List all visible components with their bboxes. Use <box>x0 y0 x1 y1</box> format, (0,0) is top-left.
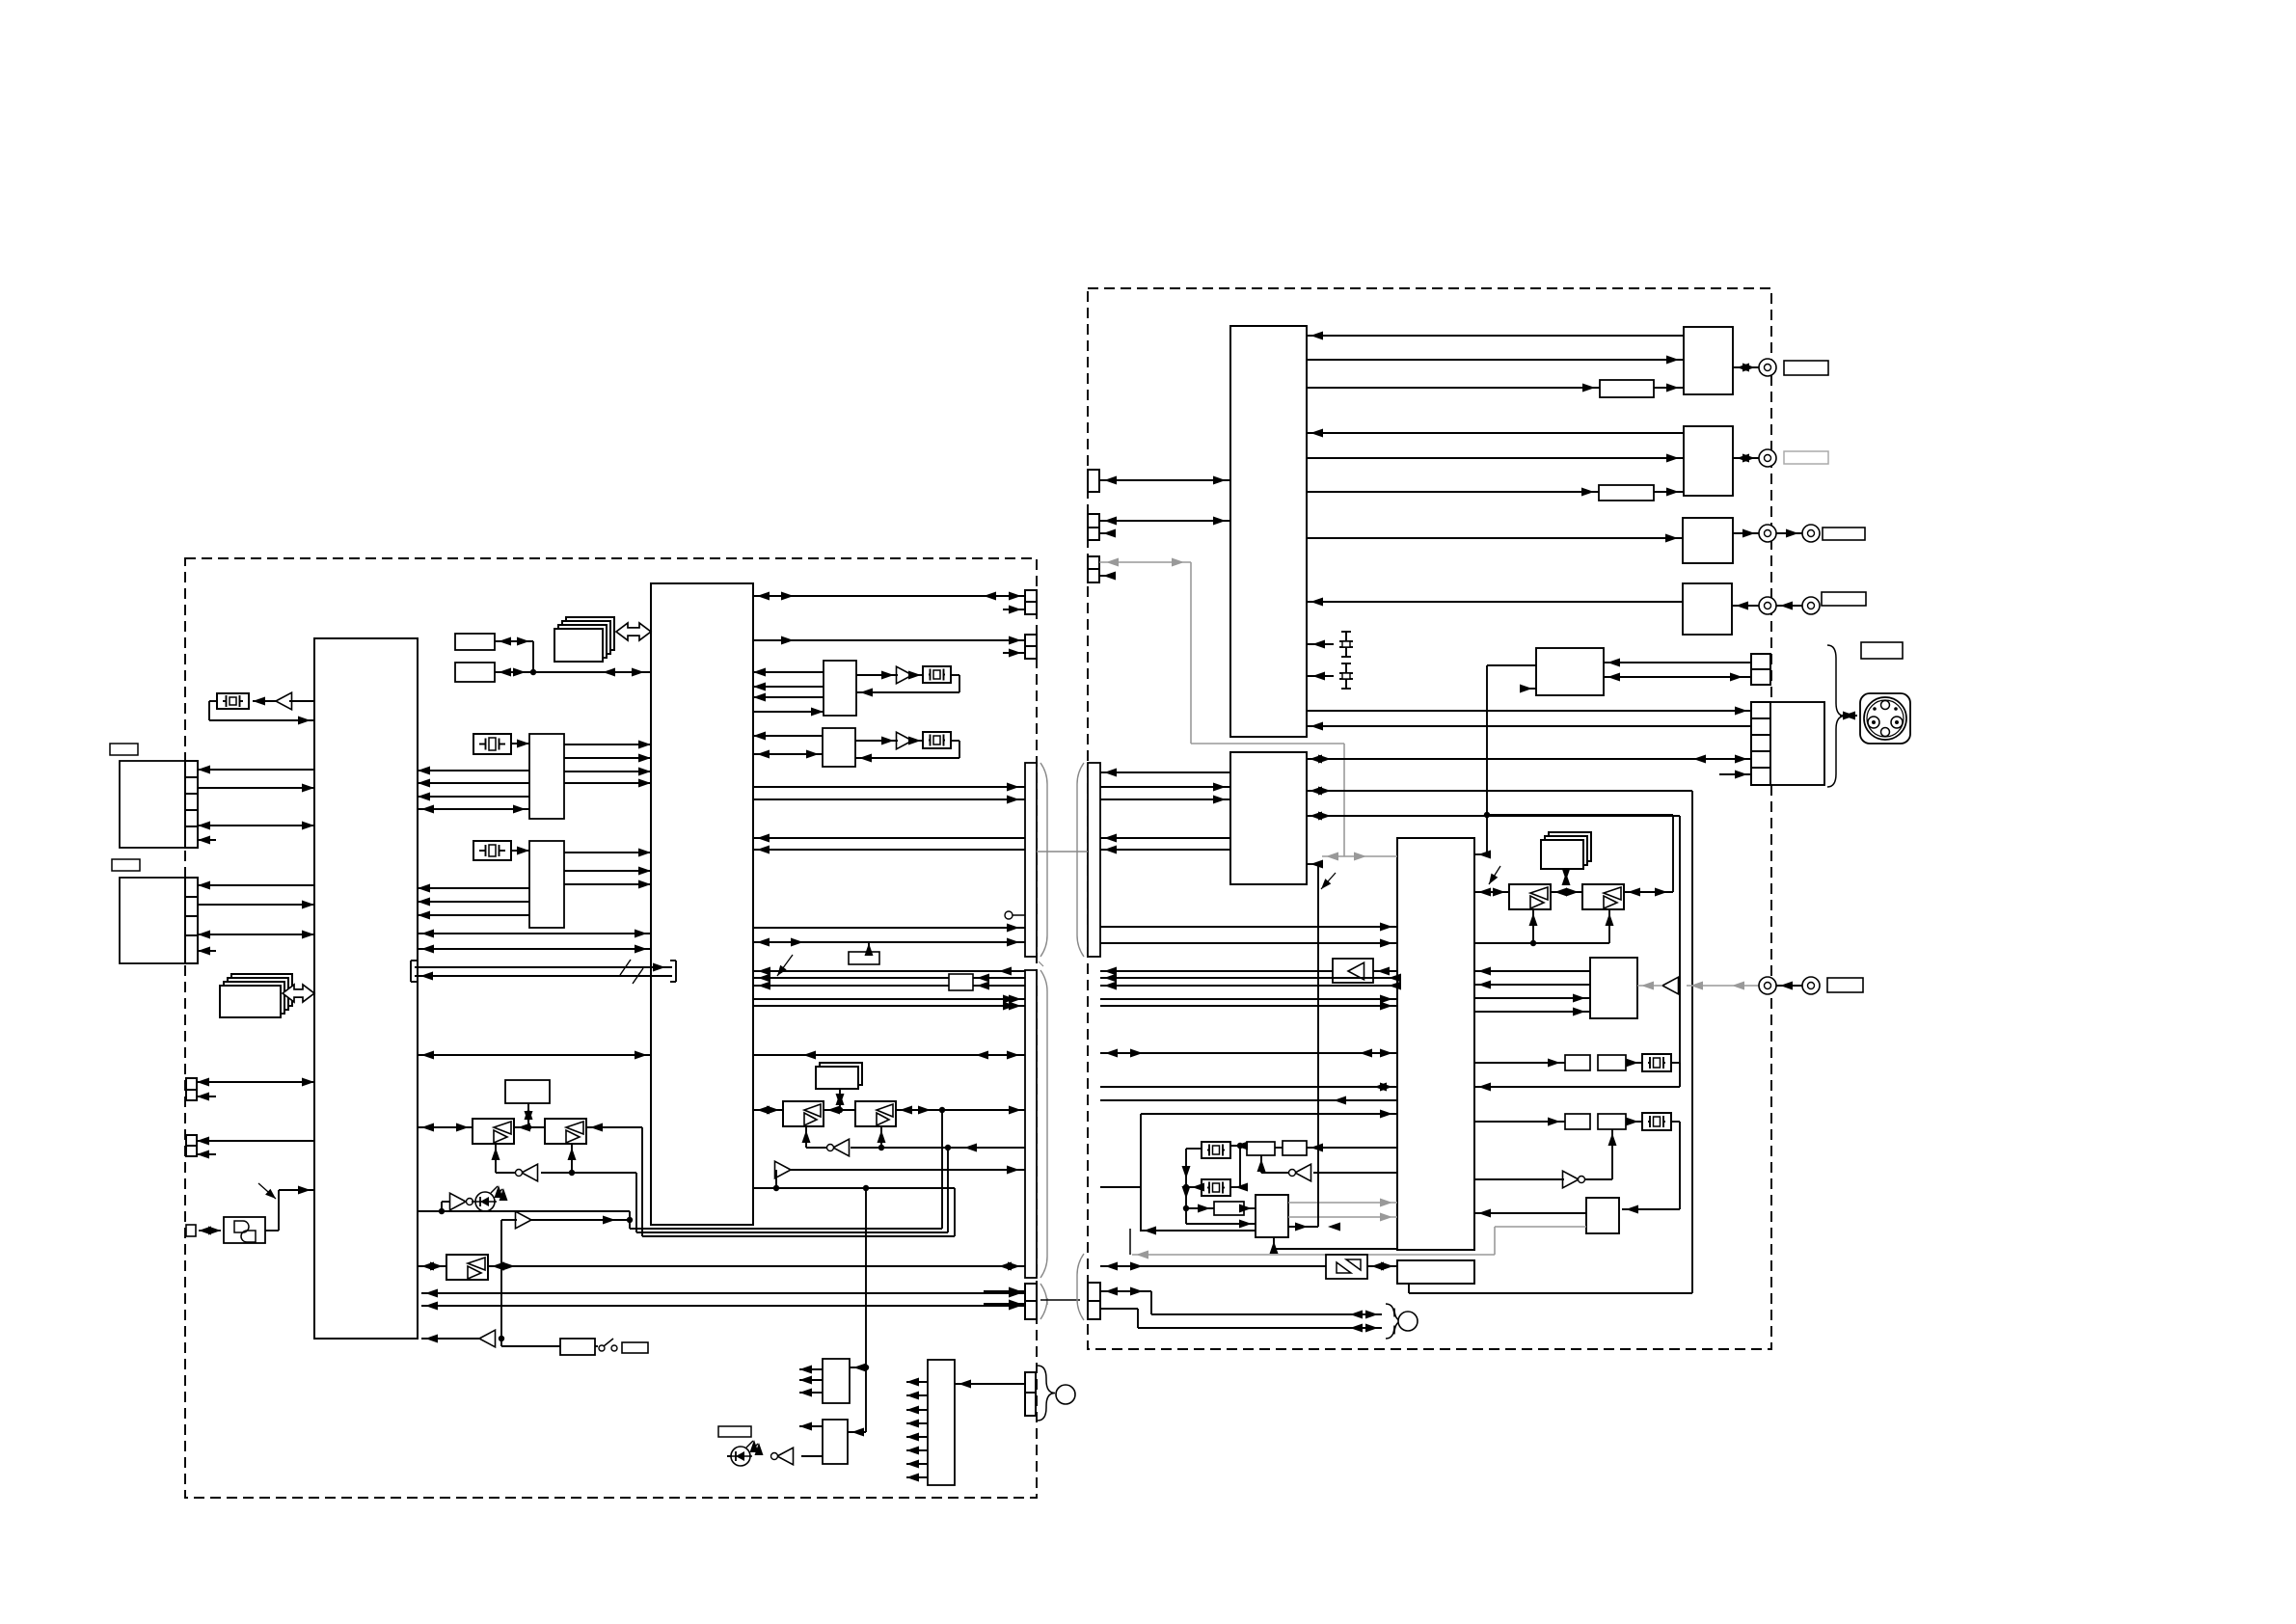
wire CNr3 grey net <box>1099 558 1397 861</box>
connector CNr2 boxes <box>1088 514 1099 540</box>
wire U10 out2 to U2 <box>564 867 651 876</box>
connector CN1 left half <box>1025 763 1037 957</box>
wire CNd2 to U33 <box>1604 673 1751 682</box>
wire U36 o2 <box>1474 981 1590 989</box>
wire CN3 mate link <box>1040 1299 1080 1301</box>
wire CN1 mate link <box>1037 851 1088 853</box>
wire U17 to CN2 <box>488 1262 1025 1271</box>
wire CN-A pin5 stub <box>198 836 216 845</box>
wire bus b2 right <box>1100 846 1230 854</box>
wire sig2 right <box>1100 974 1401 983</box>
wire enable U34/U35 <box>1474 909 1614 946</box>
wire X9 out <box>1230 1143 1248 1192</box>
wire CNd1 to U33 <box>1604 659 1751 667</box>
resonator X1 <box>217 693 249 709</box>
wire U1-U2 ctrl1 <box>418 930 651 938</box>
wire feed to U20 <box>863 1185 869 1367</box>
IC U3 DSP upper <box>1230 326 1307 737</box>
wire RC3 to U42 <box>1239 1204 1256 1213</box>
wire sig3 right <box>1100 982 1401 990</box>
wire brace to DIN <box>1840 712 1857 720</box>
wire M3 link <box>836 1089 845 1110</box>
wire RC1 to X8 <box>1230 1142 1248 1150</box>
wire X1 feedback to U1 <box>209 701 314 725</box>
IC U4 DSP lower <box>1230 752 1307 884</box>
resonator X4 <box>923 666 951 683</box>
wire sig1 left <box>753 967 1025 976</box>
wire wrap h2 <box>636 1232 948 1233</box>
bus slash data <box>633 968 643 984</box>
wire out1 left <box>753 995 1025 1004</box>
jack circle J3 <box>1759 449 1776 467</box>
resonator X9 <box>1202 1179 1230 1196</box>
wire U28 to U5 <box>1373 967 1397 976</box>
label J2 <box>1784 361 1828 375</box>
wire RA2-X6 <box>1626 1059 1642 1068</box>
wire U5 to U34 <box>1474 888 1509 897</box>
wire U4 net820 <box>1307 787 1692 796</box>
wire U33 stub <box>1520 685 1536 693</box>
filter F2 <box>1599 485 1654 501</box>
wire U13 to wrap <box>586 1123 642 1132</box>
wire U3-R2 out <box>1307 454 1684 463</box>
wire out2 right <box>1100 1002 1397 1011</box>
wire U1-U2 ctrl2 <box>418 945 651 954</box>
wire R2 jack <box>1733 454 1759 463</box>
amp block R2 <box>1684 426 1733 496</box>
wire sig1 right <box>1100 967 1333 976</box>
regulator U21 <box>823 1420 848 1464</box>
wire U3-R4 <box>1307 598 1683 607</box>
buffer U16 <box>516 1211 532 1229</box>
wire M4 link <box>1562 868 1571 885</box>
wire U12-U13 link <box>514 1123 545 1132</box>
buffer box U40 <box>1326 1255 1367 1279</box>
wire U4 dout <box>1307 707 1751 716</box>
capacitor C1 <box>1339 632 1353 657</box>
DIN connector S1 <box>1860 693 1910 744</box>
board outline: DSP board (dashed) <box>1088 288 1771 1349</box>
wire bus a2 left <box>753 796 1025 804</box>
IC U19 reset gen <box>560 1339 595 1355</box>
connector CN2 left half <box>1025 970 1037 1278</box>
inverter U6 (X1 drive) <box>276 692 292 710</box>
wire pll vert <box>1140 1114 1142 1231</box>
IC U11 level shifter top <box>505 1080 550 1103</box>
jack circle J6a <box>1759 977 1776 994</box>
transceiver U34 <box>1509 884 1551 909</box>
wire U6 to X1 <box>253 697 276 706</box>
wire U36 i1 <box>1474 994 1590 1003</box>
wire ctrlbus right <box>1100 1049 1397 1058</box>
wire U23 out8 <box>906 1474 928 1482</box>
jack circle J6b <box>1802 977 1820 994</box>
buffer U32 <box>775 1161 792 1178</box>
connector CN-A body <box>120 761 185 848</box>
resistor RC2 <box>1283 1141 1307 1155</box>
wire bus a1 right <box>1100 783 1230 792</box>
headphone jack J1 <box>224 1217 265 1243</box>
wire U10 out3 to U2 <box>564 880 651 889</box>
label CN101 <box>110 744 138 755</box>
wire CN4 line1 <box>1100 1287 1382 1319</box>
jack circle J4a <box>1759 525 1776 542</box>
wire mic in grey <box>1637 982 1662 990</box>
wire wrap left v2 <box>635 1173 637 1232</box>
wire U5 to U38 <box>1474 1178 1564 1180</box>
wire U35 right <box>1624 888 1673 897</box>
bus wire U1-U2 addr <box>415 963 672 972</box>
memory bank M1 (pages icon) <box>220 974 292 1017</box>
wire U41 out <box>1257 1155 1289 1173</box>
transceiver U12 <box>473 1119 514 1144</box>
wire U20 out1 <box>799 1366 823 1374</box>
wire U20 out3 <box>799 1389 823 1397</box>
resistor RC3 <box>1214 1202 1244 1215</box>
amp block R1 <box>1684 327 1733 394</box>
transceiver U30 <box>855 1101 896 1126</box>
amp block R3 <box>1683 518 1733 563</box>
amp triangle U37 <box>1662 977 1679 994</box>
IC U5B codec sub-block <box>1397 1260 1474 1284</box>
wire U4 net846 <box>1307 812 1680 821</box>
jack circle J4b <box>1802 525 1820 542</box>
IC U2 main LSI <box>651 583 753 1225</box>
wire U9 port3 to U1 <box>418 793 529 801</box>
wire bus b1 left <box>753 834 1025 843</box>
wire U27 to X5 <box>908 737 923 745</box>
damping R2 block <box>949 974 973 990</box>
regulator U20 <box>823 1359 850 1403</box>
IC U1 system control micom <box>314 638 418 1339</box>
wire CN-A pin2 to U1 <box>198 784 314 793</box>
wire U20 input <box>850 1364 869 1372</box>
wire sig3 left <box>753 982 1025 990</box>
resistor RA2 <box>1598 1055 1626 1070</box>
jack circle J5b <box>1802 597 1820 614</box>
wire reset to U1 <box>421 1335 479 1343</box>
wire wrap left v3 <box>641 1127 643 1236</box>
wire CN-D stub <box>197 1150 216 1159</box>
LED D2 <box>727 1440 764 1466</box>
inverter U15 LED driver <box>450 1193 473 1210</box>
wire RB2-X7 <box>1626 1118 1642 1126</box>
wire U3-C1 <box>1307 640 1334 649</box>
IC U8 eeprom rect <box>455 663 495 682</box>
wire sel to U42 <box>1186 1220 1256 1229</box>
wire wrap right v2 <box>947 1148 949 1232</box>
label J3 (grey) <box>1784 451 1828 464</box>
wire CNb stub <box>1003 649 1025 658</box>
wire U31 out <box>802 1126 827 1148</box>
memory bank M2 (pages icon) <box>554 617 614 662</box>
wire U32 line <box>753 1166 1025 1192</box>
buffer box U28 <box>1333 959 1373 983</box>
wire CN4 line2 <box>1100 1309 1382 1333</box>
connector CN-D pins <box>186 1135 197 1156</box>
IC U10 audio DSP B <box>529 841 564 928</box>
wire sel to RC3 <box>1186 1204 1214 1213</box>
cable brace right <box>1386 1304 1403 1339</box>
connector CNr1 box <box>1088 470 1099 492</box>
connector CN-E pins <box>1025 1372 1036 1416</box>
wire CN-D data <box>197 1137 314 1146</box>
wire CN-C data <box>197 1078 314 1087</box>
connector CN-C pins <box>186 1078 197 1100</box>
label J5 <box>1822 592 1866 606</box>
wire X8 select net <box>1182 1149 1202 1224</box>
wire R4 in <box>1732 602 1759 610</box>
wire CNr2 stub <box>1099 529 1116 538</box>
wire CN-C stub <box>197 1093 216 1101</box>
wire X4 feedback <box>856 675 959 697</box>
buffer U18 reset <box>479 1330 496 1347</box>
IC U7 reset rect <box>455 634 495 650</box>
wire U23 input <box>955 1380 1025 1389</box>
detect switch arrow <box>258 1183 276 1199</box>
wire clk2 right <box>1100 939 1397 948</box>
wire U26 to U27 <box>855 737 898 745</box>
wire U38 out <box>1585 1129 1617 1179</box>
wire bus a0 right <box>1100 769 1230 777</box>
transceiver U13 <box>545 1119 586 1144</box>
wire X5 feedback <box>855 741 959 763</box>
wire U42 clk2 <box>1288 1213 1397 1222</box>
transceiver U29 <box>783 1101 824 1126</box>
gain arrow U34 <box>1489 866 1500 884</box>
gain arrow U4 <box>1321 873 1336 889</box>
wire CN-B pin1 from U1 <box>198 881 314 890</box>
bus slash addr <box>620 960 631 975</box>
IC U5 codec <box>1397 838 1474 1250</box>
wire U3-R2 in <box>1307 429 1684 438</box>
inverter U38 <box>1563 1171 1585 1188</box>
wire U4 din <box>1307 722 1751 731</box>
wire R1 stub <box>865 942 874 956</box>
wire F1-R1 <box>1654 384 1684 392</box>
wire R3 out <box>1733 529 1759 538</box>
wire U19 to SW <box>595 1345 598 1347</box>
wire U24 p1 <box>753 668 824 677</box>
wire U14 out to U12 <box>492 1144 516 1173</box>
board outline: main board (dashed) <box>185 558 1037 1498</box>
wire U4 notch net <box>1307 860 1323 1228</box>
wire wrap right v3 <box>954 1188 956 1236</box>
wire clk1 left <box>753 924 1025 933</box>
wire clk2 left <box>753 938 1025 947</box>
wire U30 right <box>896 1106 1025 1115</box>
wire U1 status line <box>418 1210 630 1212</box>
wire CNr2 bus <box>1099 517 1230 526</box>
wire U23 out4 <box>906 1420 928 1428</box>
switch SW1 <box>599 1339 617 1351</box>
bracket CN4 <box>1077 1254 1084 1320</box>
wire dsp bus3 <box>1100 1083 1397 1092</box>
wire dsp out4 <box>1100 1096 1397 1105</box>
bus arrow M1 to U1 <box>283 985 314 1002</box>
cable circle power <box>1056 1385 1075 1404</box>
wire U14 in net <box>541 1170 636 1176</box>
wire net846 route <box>1679 816 1681 1087</box>
wire U42 clk1 <box>1288 1199 1397 1207</box>
wire U5 to U41 <box>1313 1172 1397 1174</box>
wire out1 right <box>1100 995 1397 1004</box>
resonator X7 <box>1642 1113 1671 1130</box>
wire U23 out3 <box>906 1406 928 1415</box>
wire U10 port3 to U1 <box>418 911 529 920</box>
wire U9 port4 <box>418 805 529 814</box>
wire CN3 in1 <box>984 1287 1025 1296</box>
wire reset net <box>499 1220 560 1346</box>
label D2 <box>718 1426 751 1437</box>
inverter U14 <box>516 1164 538 1181</box>
wire wrap h1 <box>630 1228 942 1230</box>
wire RC1-RC2 link <box>1275 1147 1283 1149</box>
wire U8 link <box>495 641 536 677</box>
IC U36 DAC <box>1590 958 1637 1018</box>
wire U10 port1 to U1 <box>418 884 529 893</box>
cable brace power <box>1038 1366 1055 1421</box>
bracket CN2 left <box>1040 970 1047 1278</box>
wire U9 out2 to U2 <box>564 754 651 763</box>
wire U23 out1 <box>906 1378 928 1387</box>
cable brace DIN <box>1827 645 1845 787</box>
wire U36 o1 <box>1474 967 1590 976</box>
wire CN-A pin1 from U1 <box>198 766 314 774</box>
wire DIN stub <box>1719 771 1751 779</box>
wire U7 link <box>495 637 533 646</box>
inverter U31 <box>827 1139 850 1156</box>
wire U4 bidir <box>1307 755 1751 764</box>
wire CNa stub <box>1003 606 1025 614</box>
wire dsp in5 <box>1141 1110 1397 1119</box>
wire out2 left <box>753 1002 1025 1011</box>
wire CN-B pin2 to U1 <box>198 901 314 909</box>
wire bus b1 right <box>1100 834 1230 843</box>
wire U3-F2 <box>1307 488 1599 497</box>
wire net820 route <box>1409 791 1692 1293</box>
wire U1 to U17 <box>418 1262 446 1271</box>
wire wrap right v1 <box>941 1110 943 1229</box>
wire U3-R3 <box>1307 534 1683 543</box>
wire CNr3 stub <box>1099 572 1116 581</box>
bus arrow JK1-J1 <box>199 1227 221 1235</box>
wire U29-U30 link <box>824 1106 855 1115</box>
wire U42 out3 <box>1288 1223 1340 1232</box>
label S1 <box>1861 642 1903 659</box>
wire CN-A pin4 bus <box>198 822 314 830</box>
wire D2 stub <box>727 1455 731 1457</box>
bracket CN1 left <box>1040 763 1047 957</box>
jack circle J5a <box>1759 597 1776 614</box>
wire X9 in <box>1186 1183 1204 1192</box>
IC U42 pll <box>1256 1195 1288 1237</box>
transceiver U17 <box>446 1255 488 1280</box>
wire R1 jack <box>1733 364 1759 372</box>
connector CN-A pins <box>185 761 198 848</box>
wire U2 to U29 <box>753 1106 783 1115</box>
wire U35 loop <box>1487 815 1673 892</box>
wire CNr1 bus <box>1099 476 1230 485</box>
wire chain2 drive <box>1474 1118 1565 1126</box>
bus arrow M2 to U2 <box>616 623 651 640</box>
IC U9 audio DSP A <box>529 734 564 819</box>
buffer U27 <box>897 732 913 749</box>
connector JK1 (jack) on edge <box>186 1225 196 1236</box>
wire U24 p2 <box>753 683 824 691</box>
wire branch U30 <box>878 1126 886 1148</box>
label J6 <box>1827 978 1863 992</box>
wire U33 to U5 route <box>1474 665 1536 859</box>
wire buffer line <box>501 1216 630 1225</box>
wire clk1 right <box>1100 923 1397 932</box>
wire X2 to U9 <box>511 740 529 748</box>
wire U21 out1 <box>799 1422 823 1431</box>
buffer U25 <box>897 666 913 684</box>
wire U1-U2 bus2 <box>418 1051 651 1060</box>
wire bus b2 left <box>753 846 1025 854</box>
wire CN-B pin3 bus <box>198 931 314 939</box>
connector CN3 boxes <box>1025 1284 1037 1319</box>
memory M4 (pages icon) <box>1541 832 1591 869</box>
wire F2-R2 <box>1654 488 1684 497</box>
wire U40 to U5B <box>1367 1262 1397 1271</box>
label CN102 <box>112 859 140 871</box>
wire LED tap <box>439 1202 449 1214</box>
memory M3 (2 pages) <box>816 1063 862 1089</box>
resistor RA1 <box>1565 1055 1590 1070</box>
wire U9 out3 to U2 <box>564 768 651 776</box>
wire bus a2 right <box>1100 796 1230 804</box>
resonator X6 <box>1642 1054 1671 1071</box>
wire U3-F1 <box>1307 384 1600 392</box>
connector CN-B pins <box>185 878 198 963</box>
wire U24 p3 <box>753 693 824 702</box>
resonator X5 <box>923 732 951 748</box>
jack circle J2 <box>1759 359 1776 376</box>
inverter U41 <box>1289 1164 1311 1181</box>
inverter U22 <box>771 1448 794 1465</box>
LED D1 <box>472 1185 508 1211</box>
bus wire U2-U1 data <box>415 972 672 981</box>
wire U36 i2 <box>1474 1008 1590 1016</box>
wire X6 feedback <box>1474 1063 1680 1092</box>
wire U2 i2c1 <box>753 592 1025 601</box>
wire U3-R1 in <box>1307 332 1684 340</box>
bracket CN3 <box>1040 1284 1047 1319</box>
connector CN1 right half <box>1088 763 1100 957</box>
connector CNa boxes <box>1025 590 1037 614</box>
wire U25 to X4 <box>908 671 923 680</box>
wire sig2 left <box>753 974 1025 983</box>
wire U23 out2 <box>906 1392 928 1400</box>
wire U10 port2 to U1 <box>418 898 529 907</box>
connector CNd boxes <box>1751 654 1770 685</box>
DIN block body <box>1770 702 1824 785</box>
wire sub in <box>1100 1262 1326 1271</box>
connector CNr3 boxes <box>1088 556 1099 582</box>
resonator X2 <box>473 734 511 754</box>
wire U42 en <box>1140 1227 1256 1235</box>
wire ctrlbus left <box>753 1051 1025 1060</box>
wire mic line grey <box>1687 982 1759 990</box>
connector CNb boxes <box>1025 635 1037 659</box>
transceiver U35 <box>1582 884 1624 909</box>
wire bus a1 left <box>753 783 1025 792</box>
bus width arrow <box>777 955 793 976</box>
wire chain1 drive <box>1474 1059 1565 1068</box>
wire U9 port1 to U1 <box>418 767 529 775</box>
